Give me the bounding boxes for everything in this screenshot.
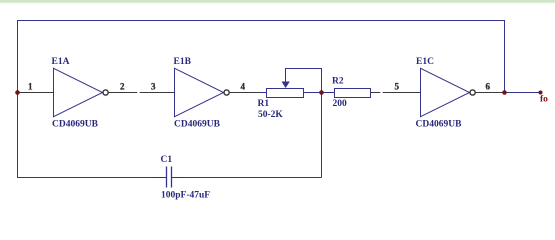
svg-text:E1C: E1C: [416, 57, 434, 67]
svg-text:R1: R1: [258, 99, 270, 109]
svg-text:3: 3: [151, 82, 156, 92]
svg-text:2: 2: [120, 82, 125, 92]
svg-text:200: 200: [333, 99, 348, 109]
svg-text:fo: fo: [540, 95, 548, 105]
svg-text:CD4069UB: CD4069UB: [416, 120, 463, 130]
svg-text:C1: C1: [161, 155, 173, 165]
svg-text:5: 5: [395, 82, 400, 92]
svg-text:1: 1: [28, 82, 33, 92]
svg-text:CD4069UB: CD4069UB: [174, 120, 221, 130]
svg-text:50-2K: 50-2K: [258, 110, 283, 120]
svg-text:E1A: E1A: [52, 57, 70, 67]
svg-text:4: 4: [241, 82, 246, 92]
svg-text:R2: R2: [332, 77, 344, 87]
svg-text:CD4069UB: CD4069UB: [52, 120, 99, 130]
svg-text:100pF-47uF: 100pF-47uF: [161, 191, 210, 201]
svg-text:6: 6: [486, 82, 491, 92]
svg-text:E1B: E1B: [174, 57, 192, 67]
